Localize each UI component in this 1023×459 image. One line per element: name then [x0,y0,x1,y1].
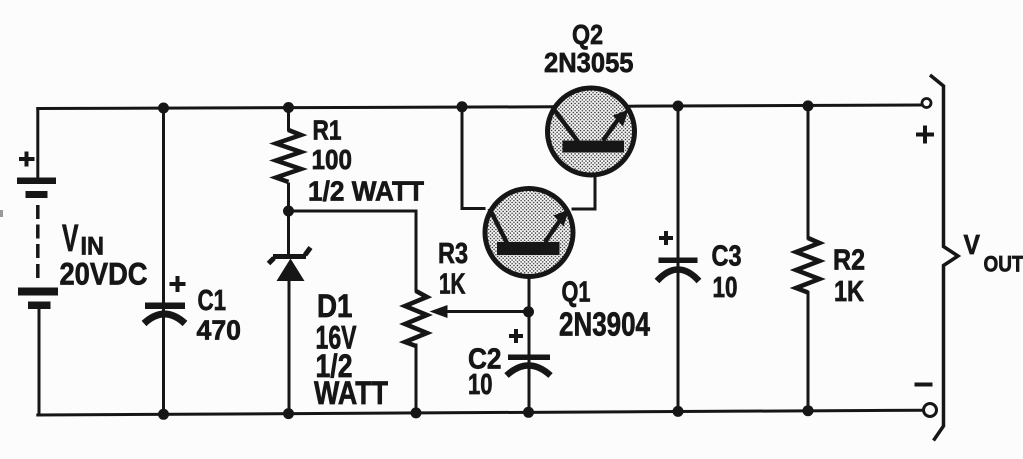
svg-text:1K: 1K [439,269,466,301]
svg-text:V: V [964,229,981,260]
svg-text:Q2: Q2 [572,19,603,50]
svg-text:C3: C3 [712,241,742,273]
svg-text:470: 470 [197,315,242,346]
svg-text:20VDC: 20VDC [60,256,148,292]
svg-text:V: V [62,218,79,260]
svg-text:1K: 1K [834,276,864,308]
svg-text:10: 10 [713,272,738,304]
svg-text:R2: R2 [833,245,865,277]
svg-text:R3: R3 [438,238,468,270]
svg-text:WATT: WATT [314,375,388,411]
svg-text:2N3904: 2N3904 [559,306,650,343]
svg-text:10: 10 [468,369,493,401]
svg-text:2N3055: 2N3055 [544,47,634,78]
svg-text:C1: C1 [198,285,227,317]
svg-text:1/2 WATT: 1/2 WATT [308,176,424,207]
svg-text:R1: R1 [313,115,342,146]
svg-text:100: 100 [312,144,353,175]
svg-text:Q1: Q1 [562,277,591,309]
svg-text:OUT: OUT [984,252,1023,277]
